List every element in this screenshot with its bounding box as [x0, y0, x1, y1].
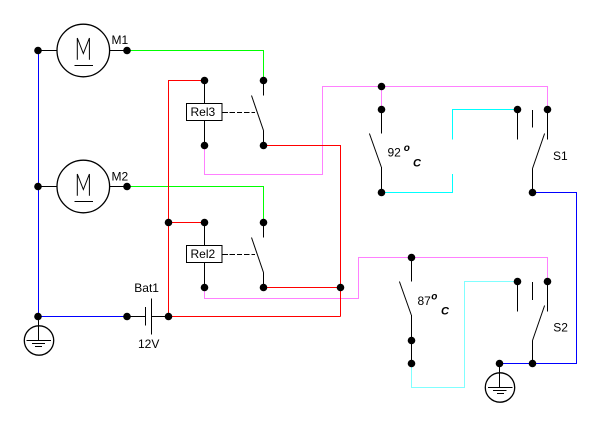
svg-text:92: 92 — [388, 146, 402, 160]
svg-text:Bat1: Bat1 — [134, 281, 159, 295]
svg-text:o: o — [404, 143, 410, 154]
svg-text:Rel3: Rel3 — [191, 105, 216, 119]
svg-text:C: C — [441, 306, 450, 318]
svg-text:S1: S1 — [553, 149, 568, 163]
svg-text:Rel2: Rel2 — [191, 247, 216, 261]
svg-text:M2: M2 — [112, 169, 129, 183]
svg-text:M1: M1 — [112, 33, 129, 47]
svg-text:12V: 12V — [138, 337, 159, 351]
svg-text:87: 87 — [418, 294, 432, 308]
svg-text:C: C — [413, 158, 422, 170]
svg-text:o: o — [431, 292, 437, 303]
svg-text:S2: S2 — [553, 321, 568, 335]
